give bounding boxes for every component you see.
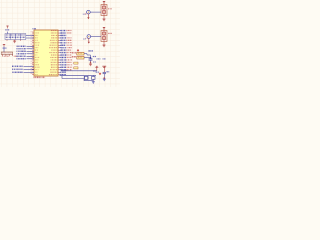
mcu U1 part number	[34, 77, 46, 79]
resistor pack RP1 pins	[2, 54, 12, 56]
pin number EA	[96, 72, 99, 73]
wire caps rail	[84, 79, 93, 80]
capacitor C1	[89, 59, 93, 62]
sheet background	[0, 0, 120, 87]
wire Q1 emitter	[103, 16, 105, 18]
label xtal a	[93, 70, 97, 71]
label Q2 left	[83, 38, 85, 39]
label Q1 left	[83, 14, 86, 15]
no-erc marker 1	[77, 49, 79, 51]
net labels left mid	[17, 46, 35, 60]
ground J1	[13, 40, 16, 43]
mcu U1 designator	[33, 28, 36, 29]
designator Q2	[108, 33, 112, 34]
resistor R5	[74, 67, 78, 69]
designator C4	[107, 71, 110, 72]
power Q1 top	[103, 1, 105, 4]
transistor Q2	[101, 31, 107, 42]
net labels right of U1	[60, 30, 72, 76]
resistor R4	[74, 62, 78, 64]
wire xtal2	[62, 76, 84, 79]
wire Q2 emitter	[103, 42, 105, 44]
junction r	[90, 57, 91, 58]
junction c1	[90, 62, 91, 63]
value text R3	[72, 56, 76, 58]
wire header to U1 b	[26, 37, 34, 39]
mcu U1 left pins	[31, 31, 40, 75]
crystal Y1	[84, 76, 88, 79]
header J1 bottom pins	[7, 40, 21, 41]
mcu U1 body	[34, 30, 58, 76]
ground xtal	[92, 81, 95, 84]
resistor R2	[77, 52, 84, 55]
resistor R3	[77, 56, 84, 59]
label xtal b	[97, 58, 101, 59]
value text R2	[72, 52, 76, 54]
label c1 gnd	[93, 61, 96, 62]
mcu U1 right pins	[49, 30, 60, 75]
designator Q1	[108, 8, 112, 9]
resistor pack RP1	[1, 52, 13, 54]
wire vcc rp1	[3, 47, 5, 52]
net label Q1 circle	[87, 10, 91, 14]
transistor Q1	[101, 5, 107, 16]
red text left row	[14, 56, 17, 57]
wire header to U1 a	[26, 34, 34, 36]
label xtal c	[103, 58, 106, 59]
power C4	[102, 66, 106, 72]
capacitor C2	[92, 75, 95, 79]
label VCC RP1	[3, 48, 7, 49]
ground C4	[103, 77, 106, 81]
wire EA	[61, 70, 97, 72]
wire xtal1	[60, 74, 97, 76]
net labels left bottom	[12, 66, 34, 73]
net label c1	[93, 56, 96, 57]
header J1	[5, 34, 26, 40]
ground C1	[89, 63, 92, 66]
wire r3 right	[84, 57, 91, 59]
no-erc marker 2	[99, 73, 101, 75]
wire Q2 base	[91, 36, 101, 38]
ground Q1	[103, 18, 106, 21]
power EA	[95, 66, 98, 71]
power arrow Q2	[85, 38, 90, 44]
ground Q2	[103, 44, 106, 47]
power VCC RP1	[3, 45, 5, 47]
wire vcc to header	[7, 32, 9, 34]
power VCC header	[6, 26, 8, 28]
wire r2 right	[84, 54, 91, 58]
wire Q1 base	[90, 11, 101, 13]
net label XT	[89, 50, 93, 51]
capacitor C4	[103, 72, 106, 77]
label VCC header	[5, 29, 9, 30]
power arrow Q1	[85, 13, 90, 19]
wire c1 top	[90, 58, 92, 59]
net label Q2 circle	[87, 35, 91, 39]
power Q2 top	[103, 27, 105, 30]
